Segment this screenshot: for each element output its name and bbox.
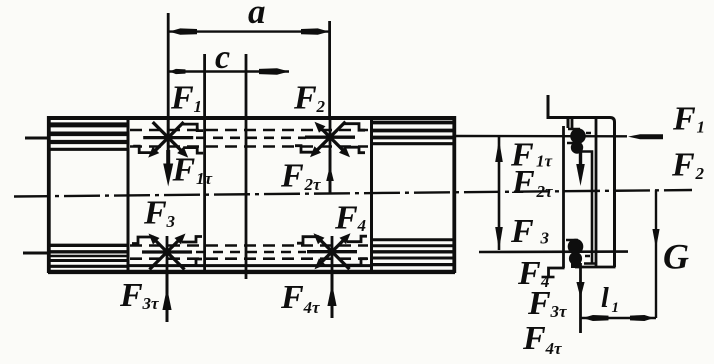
svg-text:F: F [672, 101, 696, 138]
bearing cross F1 vertical arm [167, 118, 170, 166]
arrow F2t [326, 150, 334, 194]
dimension l1 arrow left [583, 315, 609, 321]
carriage inner edge left [127, 118, 130, 272]
label F4t [280, 279, 320, 317]
arrow F4t [327, 272, 336, 318]
upper hidden line dashed 1 [130, 129, 368, 132]
lower hidden line dashed 1 [130, 244, 368, 247]
dimension c line [168, 70, 289, 73]
force line F1 F2 level [455, 135, 627, 138]
svg-text:F: F [671, 147, 695, 184]
label F2t [280, 158, 321, 195]
svg-text:2τ: 2τ [304, 175, 322, 194]
force line F3 level [479, 250, 628, 253]
svg-text:F: F [522, 320, 546, 357]
step below top contact [574, 152, 592, 264]
rolling contact bottom [566, 239, 595, 268]
vertical line right of c [245, 54, 248, 279]
carriage left vertical [562, 126, 565, 268]
force dash F1 [628, 134, 663, 139]
lower hidden line dashed 2 [130, 257, 368, 260]
label G [663, 237, 689, 277]
upper rail lines right block [373, 123, 454, 144]
label F1 [170, 80, 202, 117]
label F3t right [527, 285, 567, 322]
svg-text:3: 3 [166, 212, 176, 231]
svg-text:F: F [510, 213, 534, 250]
svg-text:2: 2 [316, 97, 326, 116]
svg-text:F: F [119, 277, 143, 314]
bearing cross F1 [133, 122, 203, 158]
label F2 right [671, 147, 705, 184]
svg-text:2τ: 2τ [536, 182, 554, 201]
svg-text:F: F [527, 285, 551, 322]
bearing cross F2 vertical arm [329, 118, 332, 194]
arrow below carriage [576, 263, 584, 333]
carriage body inner vertical [595, 118, 598, 268]
lower rail lines right block [373, 240, 454, 265]
svg-text:4: 4 [357, 216, 367, 235]
bearing cross F4 [297, 233, 367, 269]
svg-text:F: F [293, 80, 317, 117]
svg-text:3τ: 3τ [142, 294, 160, 313]
label l1 [601, 283, 619, 316]
dimension c arrow [170, 68, 290, 74]
carriage hook bottom [542, 268, 565, 277]
carriage body left vertical upper [571, 118, 574, 130]
dimension a extension left [167, 13, 170, 118]
bearing cross F3 [132, 234, 202, 270]
upper rail centerline stub left [25, 137, 49, 140]
lower hidden line dashed center [196, 251, 306, 254]
arrow inside carriage top [576, 149, 585, 186]
label F2 [293, 80, 326, 117]
svg-text:F: F [280, 279, 304, 316]
body outline top edge [48, 116, 455, 120]
main centerline dash-dot [14, 190, 692, 197]
svg-text:1: 1 [612, 300, 620, 316]
bearing cross F3 vertical arm [166, 236, 169, 272]
svg-text:1: 1 [194, 97, 203, 116]
carriage body top edge [566, 118, 615, 268]
force arrows F1t F2t and F3 vertical [495, 136, 503, 250]
body outline right edge [452, 116, 456, 273]
svg-text:F: F [334, 200, 358, 237]
dimension l1 line [581, 317, 657, 319]
carriage inner edge right [370, 118, 373, 272]
arrow F3t [162, 272, 171, 322]
dimension a extension right [328, 21, 331, 118]
body outline left edge [47, 116, 51, 273]
dimension a arrow right [301, 28, 329, 34]
svg-text:1τ: 1τ [196, 169, 213, 188]
weight arrow G [652, 190, 659, 318]
label c [215, 39, 230, 76]
label F1t [172, 152, 213, 189]
lower rail centerline stub left [23, 252, 49, 255]
svg-text:F: F [511, 164, 535, 201]
svg-text:3τ: 3τ [550, 302, 568, 321]
upper hidden line dashed 2 [130, 145, 368, 148]
svg-text:a: a [248, 0, 266, 31]
label F3 right [510, 213, 550, 250]
svg-text:4τ: 4τ [303, 298, 321, 317]
svg-text:c: c [215, 39, 230, 76]
svg-text:F: F [172, 152, 196, 189]
svg-text:4τ: 4τ [545, 339, 563, 358]
svg-text:F: F [143, 195, 167, 232]
svg-text:1τ: 1τ [536, 152, 553, 171]
rolling contact top [567, 128, 591, 154]
label F4t right [522, 320, 562, 358]
label F4 [334, 200, 366, 237]
label a [248, 0, 266, 31]
body outline bottom edge [48, 270, 455, 274]
lower solid line mid-section [128, 264, 371, 267]
svg-text:F: F [280, 158, 304, 195]
bearing cross F2 [295, 122, 365, 158]
upper rail lines left block [50, 125, 127, 149]
svg-text:2: 2 [695, 164, 705, 183]
svg-text:l: l [601, 283, 609, 314]
label F4 right [517, 255, 550, 292]
vertical line left of c [203, 54, 206, 274]
label F3 [143, 195, 176, 232]
carriage body bottom edge [575, 266, 616, 269]
label F3t [119, 277, 159, 314]
label F1t right [510, 137, 553, 174]
svg-text:3: 3 [540, 229, 550, 248]
bearing cross F4 vertical arm [331, 236, 334, 272]
label F1 right [672, 101, 705, 138]
svg-text:F: F [170, 80, 194, 117]
dimension a arrow left [169, 28, 197, 34]
svg-text:1: 1 [697, 118, 706, 137]
upper hidden line dashed center [196, 137, 306, 140]
dimension l1 arrow right [630, 315, 654, 321]
label F2t right [511, 164, 553, 201]
arrow F1t [163, 150, 173, 187]
lower rail lines left block [50, 245, 127, 266]
svg-text:G: G [663, 237, 689, 277]
dimension a line [168, 30, 330, 32]
carriage hook top [548, 95, 568, 128]
